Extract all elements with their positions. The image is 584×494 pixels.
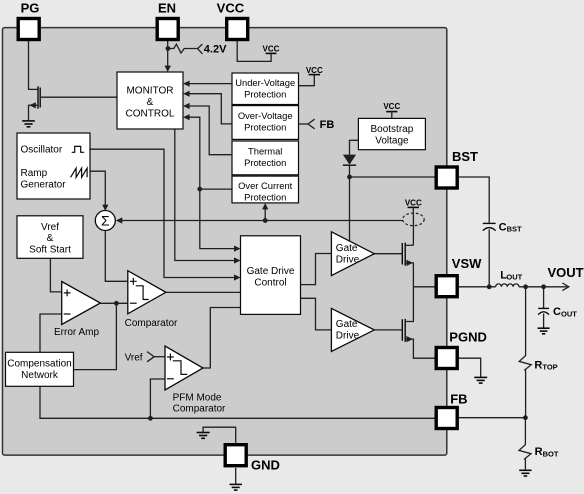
pin PGND xyxy=(436,348,457,369)
wire UVP output to MONITOR arrow 1 xyxy=(189,83,232,85)
svg-text:CONTROL: CONTROL xyxy=(126,108,175,119)
wire EN pin down to MONITOR with branch xyxy=(167,41,169,67)
block MONITOR & CONTROL xyxy=(117,72,183,129)
svg-text:Soft Start: Soft Start xyxy=(29,244,71,255)
svg-text:MONITOR: MONITOR xyxy=(126,85,173,96)
svg-text:R: R xyxy=(535,446,543,458)
wire UVP to VCC rail xyxy=(299,75,315,86)
wire VSW node to VSW pin xyxy=(413,286,436,288)
ground below COUT xyxy=(538,328,550,334)
transistor Q1 (PG open-drain MOSFET) xyxy=(29,86,41,120)
wire PFM output to Gate Drive Control xyxy=(203,308,241,369)
svg-text:4.2V: 4.2V xyxy=(204,44,227,56)
wire current-sense line into summer xyxy=(122,220,403,222)
wire OVP output to MONITOR arrow 2 xyxy=(189,94,232,124)
pin VSW xyxy=(436,276,457,297)
svg-text:Protection: Protection xyxy=(244,89,286,100)
capacitor COUT xyxy=(538,308,549,327)
ground at PGND xyxy=(474,377,487,383)
inductor LOUT xyxy=(496,284,519,287)
svg-text:VCC: VCC xyxy=(217,0,245,15)
ground below Q1 xyxy=(22,121,35,127)
op-amp Error Amp xyxy=(62,282,101,325)
wire BST pin to CBST xyxy=(459,177,489,223)
svg-text:Under-Voltage: Under-Voltage xyxy=(235,77,295,88)
wire PGND pin to external ground xyxy=(459,358,481,377)
wire Compensation Network top to Error Amp minus input xyxy=(40,314,62,352)
wire Ramp Generator to summer xyxy=(90,171,105,205)
wire Comparator output to Gate Drive Control xyxy=(166,291,241,293)
svg-text:&: & xyxy=(47,233,54,244)
node FB divider junction xyxy=(523,415,528,420)
svg-text:FB: FB xyxy=(320,119,335,131)
svg-text:Comparator: Comparator xyxy=(173,404,226,415)
svg-text:EN: EN xyxy=(158,0,176,15)
wire lower Gate Drive to Q3 gate xyxy=(374,329,402,331)
wire LOUT to VOUT with arrow xyxy=(519,286,567,288)
VCC rail symbol at VCC pin xyxy=(263,45,280,54)
svg-text:Gate Drive: Gate Drive xyxy=(247,266,295,277)
svg-text:Error Amp: Error Amp xyxy=(54,327,99,338)
wire PG pin to Q1 drain xyxy=(29,41,39,90)
svg-text:Bootstrap: Bootstrap xyxy=(370,124,413,135)
svg-text:Ramp: Ramp xyxy=(21,168,48,179)
svg-text:VCC: VCC xyxy=(306,66,323,75)
svg-text:FB: FB xyxy=(450,392,467,407)
svg-text:PG: PG xyxy=(21,0,40,15)
svg-text:Comparator: Comparator xyxy=(125,318,178,329)
svg-text:VCC: VCC xyxy=(263,45,280,54)
wire diode junction to BST pin xyxy=(350,176,437,178)
node BST junction xyxy=(347,175,352,180)
IC body xyxy=(3,28,447,456)
svg-text:BST: BST xyxy=(452,149,478,164)
pin FB xyxy=(436,408,457,429)
buffer upper Gate Drive xyxy=(331,232,374,276)
wire MONITOR output down to Gate Drive Control xyxy=(175,129,235,261)
svg-text:&: & xyxy=(147,97,154,108)
svg-text:Vref: Vref xyxy=(125,352,143,363)
wire Q1 gate to MONITOR block xyxy=(40,96,117,98)
block Under-Voltage Protection xyxy=(232,73,299,105)
svg-text:VCC: VCC xyxy=(383,102,400,111)
svg-text:R: R xyxy=(534,359,542,371)
chevron FB xyxy=(308,119,315,129)
block Thermal Protection xyxy=(232,141,299,175)
diode D1 bootstrap xyxy=(343,155,356,177)
wire VCC through sense to Q2 drain xyxy=(412,213,414,245)
wire Vref Soft-Start to Error Amp plus input xyxy=(50,258,61,292)
wire Thermal output to MONITOR arrow 3 xyxy=(189,106,232,155)
svg-text:C: C xyxy=(553,306,561,318)
ground below GND pin xyxy=(230,484,242,490)
block Vref & Soft Start xyxy=(17,216,83,258)
svg-text:OUT: OUT xyxy=(506,273,522,282)
svg-text:Protection: Protection xyxy=(244,191,286,202)
block Compensation Network xyxy=(6,352,74,386)
svg-text:OUT: OUT xyxy=(561,310,577,319)
wire Compensation Network bottom to feedback rail xyxy=(40,386,435,418)
resistor RBOT xyxy=(519,418,531,470)
comparator U2 (PWM comparator) xyxy=(128,271,166,314)
wire BST junction down to high-side Gate Drive supply xyxy=(349,177,351,241)
svg-text:BST: BST xyxy=(507,225,522,234)
transistor Q2 high-side MOSFET xyxy=(402,243,413,287)
svg-text:Protection: Protection xyxy=(244,122,286,133)
wire COUT branch xyxy=(543,287,545,308)
ground internal near GND pin xyxy=(197,433,210,439)
comparator U3 PFM Mode xyxy=(165,346,203,390)
wire VSW pin to output network xyxy=(459,286,496,288)
wire Error Amp output to Comparator minus input xyxy=(100,302,128,304)
svg-text:Network: Network xyxy=(21,370,59,381)
pin EN xyxy=(157,19,178,40)
block Over Current Protection xyxy=(232,176,299,203)
node feedback rail junction xyxy=(148,416,153,421)
node EN junction xyxy=(166,46,171,51)
resistor RTOP xyxy=(519,287,531,418)
wire GDC to lower Gate Drive xyxy=(301,298,332,330)
svg-text:VOUT: VOUT xyxy=(548,265,584,280)
svg-text:C: C xyxy=(499,221,507,233)
svg-text:Control: Control xyxy=(254,278,286,289)
wire GND pin up and to internal ground xyxy=(203,427,236,443)
wire Over-Current output to MONITOR arrow 4 and to Gate Drive Control xyxy=(189,117,232,189)
node CBST-VSW junction xyxy=(487,284,492,289)
ground below RBOT xyxy=(519,470,531,476)
svg-text:VSW: VSW xyxy=(452,256,482,271)
wire GDC to upper Gate Drive xyxy=(301,254,332,285)
wire feedback junction to PFM comparator minus input xyxy=(150,379,165,418)
svg-text:Over-Voltage: Over-Voltage xyxy=(238,110,293,121)
current sense ellipse xyxy=(403,213,425,226)
chevron Vref xyxy=(147,352,154,362)
wire VCC pin to VCC rail xyxy=(237,41,271,62)
svg-text:Drive: Drive xyxy=(336,331,360,342)
VCC rail symbol at UVP xyxy=(306,66,323,75)
resistor to 4.2V threshold xyxy=(168,44,198,53)
pin GND xyxy=(225,445,246,466)
svg-text:BOT: BOT xyxy=(543,449,559,458)
node RTOP junction xyxy=(523,284,528,289)
svg-text:Gate: Gate xyxy=(336,319,358,330)
wire OVP to FB input xyxy=(299,123,309,125)
chevron 4.2V xyxy=(198,44,203,54)
VCC rail symbol above Bootstrap Voltage xyxy=(383,102,400,118)
wire GND pin down to external ground xyxy=(235,468,237,484)
node COUT junction xyxy=(541,284,546,289)
pin VCC xyxy=(227,19,248,40)
svg-text:Vref: Vref xyxy=(41,222,59,233)
wire junction down to Compensation Network right side xyxy=(73,303,116,369)
block Over-Voltage Protection xyxy=(232,106,299,140)
block Gate Drive Control xyxy=(241,236,301,315)
svg-text:PFM Mode: PFM Mode xyxy=(173,393,222,404)
buffer lower Gate Drive xyxy=(331,308,374,351)
wire Bootstrap Voltage to diode xyxy=(350,140,359,154)
svg-text:Thermal: Thermal xyxy=(248,146,282,157)
svg-text:Drive: Drive xyxy=(336,254,360,265)
svg-text:Generator: Generator xyxy=(21,180,67,191)
svg-text:PGND: PGND xyxy=(449,330,487,345)
svg-text:Voltage: Voltage xyxy=(375,136,409,147)
pin PG xyxy=(18,19,39,40)
pin BST xyxy=(436,167,457,188)
wire summer output to Comparator plus input xyxy=(105,231,128,282)
svg-text:VCC: VCC xyxy=(405,198,422,207)
node Error Amp output junction xyxy=(114,301,119,306)
capacitor CBST xyxy=(483,223,496,286)
wire Oscillator output to Gate Drive Control xyxy=(90,149,235,277)
svg-text:Protection: Protection xyxy=(244,157,286,168)
svg-text:Over Current: Over Current xyxy=(238,180,293,191)
wire FB pin to divider xyxy=(459,417,525,419)
svg-text:GND: GND xyxy=(251,458,280,473)
VCC rail symbol above current sense xyxy=(405,198,422,213)
svg-text:Σ: Σ xyxy=(101,213,110,229)
svg-text:Gate: Gate xyxy=(336,243,358,254)
wire Vref to PFM plus input xyxy=(154,356,165,358)
block Bootstrap Voltage xyxy=(358,118,425,149)
block Oscillator / Ramp Generator xyxy=(17,133,90,199)
node sense line junction xyxy=(263,218,268,223)
summer (sigma) node xyxy=(95,211,115,231)
wire upper Gate Drive to Q2 gate xyxy=(374,253,402,255)
svg-text:Compensation: Compensation xyxy=(7,359,71,370)
svg-text:TOP: TOP xyxy=(542,363,557,372)
wire sense junction up into Over-Current Protection xyxy=(264,209,266,221)
svg-text:Oscillator: Oscillator xyxy=(21,145,63,156)
transistor Q3 low-side MOSFET xyxy=(402,287,436,358)
